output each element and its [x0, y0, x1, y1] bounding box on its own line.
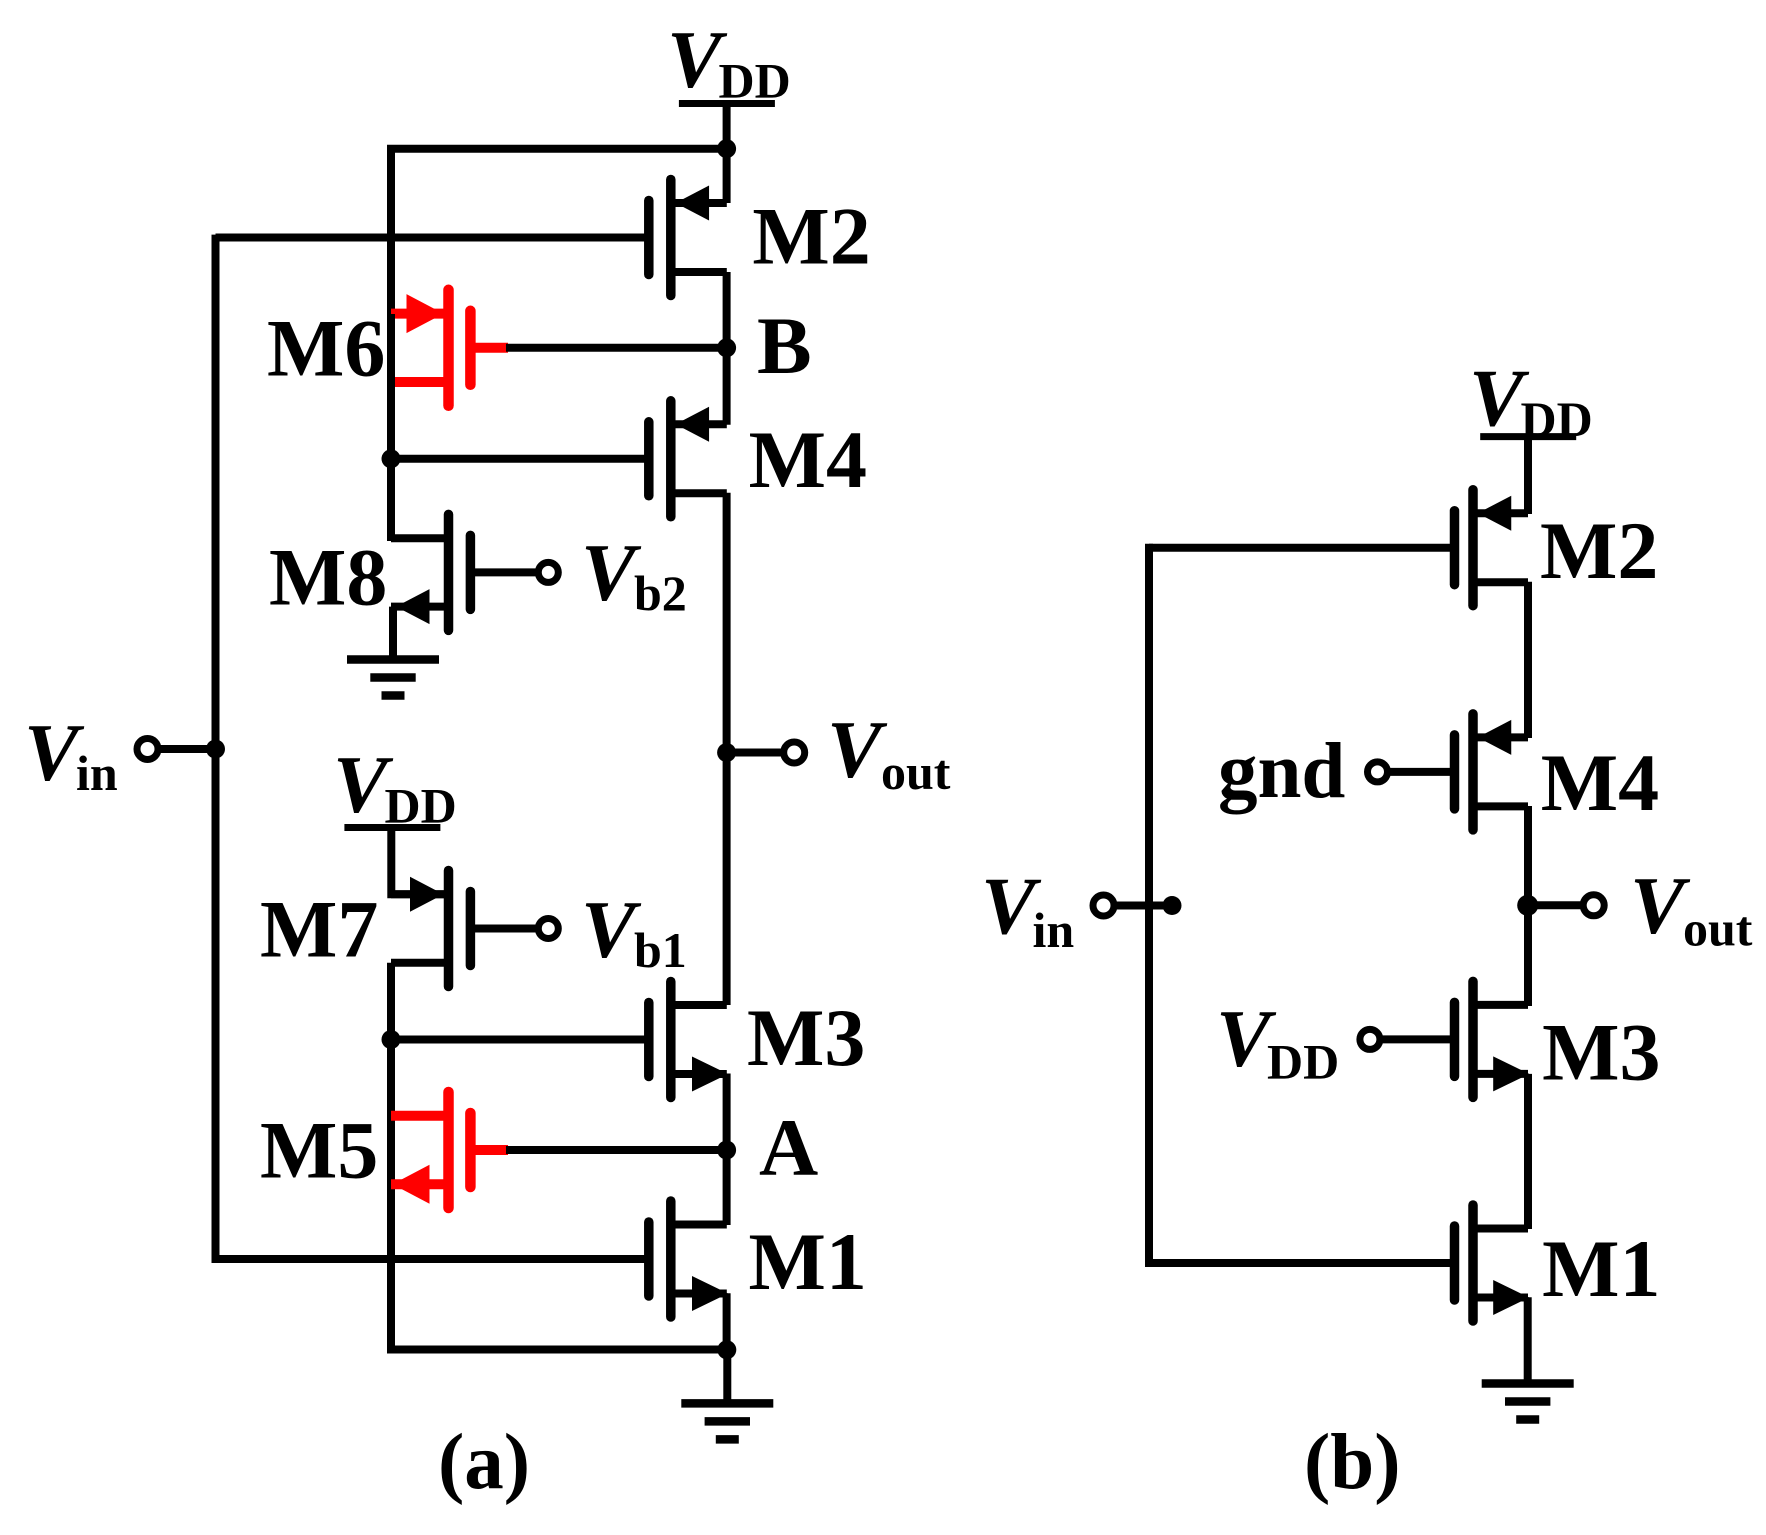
terminal circle VDD (M3 gate, b) — [1360, 1029, 1380, 1049]
node Vin junction (a) — [206, 740, 225, 759]
wire M2 drain to node B — [723, 272, 731, 351]
wire M6 gate to node B — [506, 344, 727, 352]
svg-text:M4: M4 — [749, 414, 867, 505]
wire rail Vout node to M3 drain (b) — [1524, 905, 1532, 1006]
node M3 gate tap — [382, 1030, 401, 1049]
svg-text:gnd: gnd — [1218, 728, 1345, 815]
node Vout junction (a) — [717, 743, 736, 762]
svg-text:DD: DD — [719, 53, 791, 109]
node Vin junction (b) — [1163, 896, 1182, 915]
power symbol VDD (top of circuit b) — [1480, 433, 1576, 440]
node Vout junction (b) — [1517, 895, 1538, 916]
wire Vout tap — [727, 749, 786, 757]
wire Vout tap (b) — [1528, 901, 1585, 909]
wire rail M2 drain to M4 source (b) — [1524, 582, 1532, 738]
wire VDD circle to M3 gate (b) — [1381, 1035, 1450, 1043]
wire rail M3 source to node A — [723, 1074, 731, 1151]
wire M2 source to VDD node — [723, 152, 731, 203]
wire rail node A to M1 drain — [723, 1150, 731, 1225]
node VDD-a junction — [717, 139, 736, 158]
svg-text:DD: DD — [1521, 391, 1593, 447]
transistor M4 (PMOS, circuit a) — [644, 422, 654, 496]
svg-text:out: out — [881, 744, 951, 800]
transistor M3 (NMOS, circuit a) — [644, 1003, 654, 1077]
transistor M1 (NMOS, circuit a) — [644, 1222, 654, 1296]
svg-text:M8: M8 — [269, 532, 387, 623]
svg-text:M5: M5 — [260, 1104, 378, 1195]
wire M5 gate stub (red) — [475, 1145, 508, 1155]
terminal circle Vin (a) — [137, 739, 158, 760]
wire gnd circle to M4 gate — [1389, 768, 1450, 776]
power symbol VDD (top of circuit a) — [679, 100, 775, 107]
ground below M8 (with source stem) — [389, 607, 397, 664]
svg-text:V: V — [581, 884, 642, 975]
wire rail M3 source to M1 drain (b) — [1524, 1074, 1532, 1229]
wire rail M4 drain to M3 drain — [723, 493, 731, 1005]
wire Vin bus vertical — [212, 235, 220, 1263]
svg-text:M2: M2 — [752, 190, 870, 281]
svg-text:DD: DD — [1267, 1034, 1339, 1090]
terminal circle Vout (b) — [1583, 895, 1604, 916]
svg-text:A: A — [759, 1102, 818, 1193]
svg-text:DD: DD — [385, 778, 457, 834]
wire left bus M6 to M8 — [387, 314, 395, 541]
wire M4 gate lead — [391, 455, 645, 463]
transistor M1 (NMOS, circuit b) — [1450, 1226, 1460, 1300]
terminal circle Vb2 — [475, 568, 540, 576]
svg-text:V: V — [1630, 860, 1691, 951]
wire M1 gate to bus (b) — [1149, 1259, 1450, 1267]
svg-text:V: V — [581, 527, 642, 618]
transistor M5 (NMOS, red, circuit a) — [465, 1113, 476, 1187]
wire M3 gate lead — [391, 1036, 645, 1044]
wire M2 gate to bus (b) — [1149, 544, 1450, 552]
svg-text:(a): (a) — [438, 1419, 530, 1506]
transistor M4 (PMOS, circuit b) — [1450, 735, 1460, 809]
wire VDD stem to M7 source — [391, 831, 444, 894]
transistor M6 (PMOS, red, circuit a) — [465, 311, 476, 385]
wire M5 gate to node A — [506, 1146, 727, 1154]
transistor M3 (NMOS, circuit b) — [1450, 1002, 1460, 1076]
svg-text:V: V — [827, 704, 888, 795]
svg-text:(b): (b) — [1304, 1419, 1401, 1506]
wire Vin to bus — [157, 745, 219, 753]
svg-text:M4: M4 — [1541, 737, 1659, 828]
transistor M2 (PMOS, circuit a) — [644, 201, 654, 275]
node A junction — [717, 1141, 736, 1160]
svg-text:b1: b1 — [634, 922, 687, 978]
wire rail M4 drain to Vout node (b) — [1524, 806, 1532, 908]
node ground junction (a) — [717, 1340, 736, 1359]
wire rail M1 source to ground node — [723, 1293, 731, 1352]
svg-text:M1: M1 — [1542, 1223, 1660, 1314]
svg-text:M1: M1 — [749, 1216, 867, 1307]
svg-text:in: in — [76, 745, 118, 801]
transistor M8 (NMOS, circuit a) — [466, 535, 476, 609]
transistor M2 (PMOS, circuit b) — [1450, 511, 1460, 585]
wire left bus M7 drain down to bottom corner — [391, 963, 727, 1350]
wire M2 gate to Vin bus — [216, 234, 645, 242]
wire VDD top rail to left bus — [391, 149, 727, 318]
transistor M7 (PMOS, circuit a) — [466, 892, 476, 966]
svg-text:M2: M2 — [1540, 505, 1658, 596]
power symbol VDD (middle, above M7) — [344, 824, 440, 831]
terminal circle Vout (a) — [784, 742, 805, 763]
wire M1 gate lead — [216, 1255, 645, 1263]
ground at bottom of circuit a — [723, 1350, 731, 1408]
node M4 gate tap — [382, 449, 401, 468]
svg-text:M3: M3 — [747, 992, 865, 1083]
terminal circle Vin (b) — [1093, 895, 1114, 916]
terminal circle Vb1 — [475, 925, 540, 933]
svg-text:M6: M6 — [267, 302, 385, 393]
terminal circle gnd — [1368, 762, 1388, 782]
wire Vin to bus (b) — [1113, 902, 1176, 910]
wire node B to M4 source — [723, 348, 731, 425]
ground at bottom of circuit b (with source stem) — [1524, 1297, 1532, 1387]
wire M6 gate stub (red) — [475, 343, 508, 353]
svg-text:out: out — [1683, 901, 1753, 957]
svg-text:b2: b2 — [634, 565, 687, 621]
wire Vin bus vertical (b) — [1145, 544, 1153, 1267]
svg-text:M3: M3 — [1542, 1007, 1660, 1098]
svg-text:M7: M7 — [260, 884, 378, 975]
svg-text:in: in — [1033, 902, 1075, 958]
node B junction — [717, 338, 736, 357]
svg-text:B: B — [757, 300, 812, 391]
wire VDD stem to M2 source (b) — [1524, 440, 1532, 514]
